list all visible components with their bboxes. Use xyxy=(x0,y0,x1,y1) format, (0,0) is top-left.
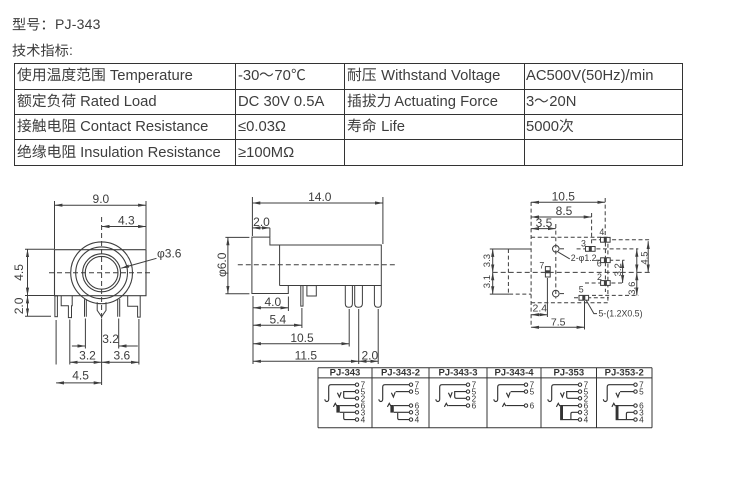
PJ-353 pin 6 terminal xyxy=(578,404,581,407)
dimension 3.6 bottom ext (dashed) xyxy=(592,294,639,296)
dimension 4.3 line xyxy=(102,226,146,228)
PJ-343 ring-spring contact (V) xyxy=(337,392,341,397)
PJ-353-2 wire to pin 4 xyxy=(619,419,634,421)
PJ-353 wire to pin 4 xyxy=(563,419,578,421)
PJ-353-2 shunt bar (filled) xyxy=(616,405,619,420)
PJ-353 pin 7 terminal xyxy=(578,383,581,386)
PJ-343-3 pin 6 terminal xyxy=(466,404,469,407)
dimension 3.6 line xyxy=(102,361,139,363)
PCB body left edge / ext line (dashed) xyxy=(530,202,532,328)
svg-text:14.0: 14.0 xyxy=(308,190,332,204)
variant table grid xyxy=(318,368,652,428)
svg-text:3.2: 3.2 xyxy=(79,348,96,362)
PJ-343-2 pin 7 terminal xyxy=(409,383,412,386)
PJ-353 shunt spring contact (^) xyxy=(556,403,560,407)
PJ-343-4 wire to pin 5 xyxy=(511,391,525,393)
svg-text:2-φ1.2: 2-φ1.2 xyxy=(571,253,597,263)
horizontal centerline of J1 xyxy=(49,272,152,274)
svg-text:4: 4 xyxy=(415,416,420,425)
PJ-343-4 wire to pin 6 xyxy=(506,405,524,407)
PJ-343-4 shunt spring contact (^) xyxy=(502,403,506,407)
pin lead A (flat) xyxy=(301,286,303,307)
PJ-353-2 shunt spring contact (^) xyxy=(612,403,616,407)
PJ-343-2 ring-spring contact (V) xyxy=(391,392,395,397)
vertical centerline of J1 xyxy=(101,217,103,320)
svg-text:6: 6 xyxy=(472,402,477,411)
dimension 9.0 extension lines xyxy=(55,201,147,249)
svg-text:5: 5 xyxy=(639,388,644,397)
svg-text:2.0: 2.0 xyxy=(361,348,378,362)
PJ-353-2 pin 6 terminal xyxy=(634,404,637,407)
label 5-(1.2X0.5) leader xyxy=(586,301,597,314)
dimension 11.5 line xyxy=(253,360,359,362)
pin P3 xyxy=(85,299,87,317)
pad 3 row (dashed) xyxy=(577,248,639,250)
svg-text:3.2: 3.2 xyxy=(613,263,624,276)
svg-text:4.3: 4.3 xyxy=(118,214,135,228)
svg-text:3.1: 3.1 xyxy=(482,275,493,288)
svg-text:PJ-353: PJ-353 xyxy=(553,367,584,378)
PJ-343 wire pin5-bracket-pin2 xyxy=(344,392,356,399)
dimension 4.5 line xyxy=(27,249,29,295)
dimension phi6.0 extension lines xyxy=(225,237,249,293)
pin lead D (round) xyxy=(355,286,363,308)
svg-text:φ3.6: φ3.6 xyxy=(157,247,182,261)
dimension 3.2 lower line xyxy=(70,361,102,363)
PJ-343 tip contact (J) and wire to pin 7 xyxy=(325,385,355,402)
dimension 3.6 upper segment xyxy=(636,249,638,273)
flange bottom ext line (solid) xyxy=(490,293,509,295)
svg-text:10.5: 10.5 xyxy=(552,189,576,203)
svg-text:2.0: 2.0 xyxy=(253,215,270,229)
pin P1 (left) xyxy=(55,296,58,317)
PJ-343-3 ring-spring contact (V) xyxy=(448,392,452,397)
PJ-343-2 pin 6 terminal xyxy=(409,404,412,407)
svg-text:9.0: 9.0 xyxy=(93,192,110,206)
svg-text:5: 5 xyxy=(415,388,420,397)
PJ-343 isolation block (filled) xyxy=(336,405,339,413)
pad7 ext line xyxy=(546,278,548,317)
dimension 2.0 extension line xyxy=(25,315,51,317)
dimension 3.2 upper arrows xyxy=(72,345,86,347)
PJ-343-3 wire pin5-bracket-pin2 xyxy=(455,392,467,399)
svg-text:PJ-343-4: PJ-343-4 xyxy=(494,367,534,378)
PJ-343-4 pin 6 terminal xyxy=(524,404,527,407)
PJ-343-2 wire to pin 6 xyxy=(394,405,409,407)
dimension 10.5 line xyxy=(531,201,605,203)
svg-text:3.5: 3.5 xyxy=(536,216,553,230)
ext line 10.5 (dashed) xyxy=(604,198,606,237)
pad5 ext line xyxy=(584,301,586,330)
pad 2 xyxy=(601,281,611,286)
dimension 2.0 right ext xyxy=(377,309,379,364)
svg-text:7.5: 7.5 xyxy=(551,316,566,328)
dimension 3.3 line xyxy=(492,249,494,272)
pin lead C (round) xyxy=(345,286,352,308)
dimension 2.0 line xyxy=(27,296,29,317)
svg-text:4.5: 4.5 xyxy=(72,369,89,383)
dimension 4.5 bottom line xyxy=(56,382,102,384)
pad 5 xyxy=(579,295,589,300)
dimension 3.5 line xyxy=(531,228,556,230)
svg-text:5: 5 xyxy=(579,284,584,294)
PJ-343 pin 6 terminal xyxy=(355,404,358,407)
pad 7 xyxy=(545,267,550,277)
dimension 2.0 top ext xyxy=(269,228,271,237)
PJ-353-2 wire pin3 hook xyxy=(626,412,633,419)
pin P6 tab and lead xyxy=(128,296,141,317)
hole H1 (1.2mm) xyxy=(553,246,560,253)
svg-text:2.4: 2.4 xyxy=(532,303,547,315)
label phi3.6 leader xyxy=(121,258,156,268)
pin extension lines xyxy=(56,319,139,386)
dimension 3.2 line xyxy=(622,260,624,283)
PJ-343 pin 5 terminal xyxy=(355,390,358,393)
PJ-353-2 pin 7 terminal xyxy=(634,383,637,386)
svg-text:6: 6 xyxy=(597,259,602,269)
svg-text:φ6.0: φ6.0 xyxy=(215,252,229,277)
PJ-353 pin 4 terminal xyxy=(578,418,581,421)
PJ-343-4 ring-spring contact (V) xyxy=(506,392,510,397)
label 2-phi1.2 leader xyxy=(558,252,570,259)
pin P2 tab and lead xyxy=(61,296,72,318)
svg-text:3.3: 3.3 xyxy=(482,254,493,267)
svg-text:PJ-343-2: PJ-343-2 xyxy=(381,367,420,378)
dimension 9.0 line xyxy=(55,204,147,206)
pads 6-2 axis (dashed) xyxy=(604,243,606,293)
svg-text:4.5: 4.5 xyxy=(12,264,26,281)
mount tab B xyxy=(307,286,316,296)
pad 6 row (dashed) xyxy=(596,259,625,261)
jack J1 bushing outer circle xyxy=(71,242,133,304)
PJ-343-2 wire bracket pin3-pin4 xyxy=(398,413,410,420)
svg-text:5: 5 xyxy=(530,388,535,397)
dimension 2.0 right line xyxy=(359,360,379,362)
jack J1 bore circle (3.6mm) xyxy=(85,256,118,289)
pad 3 xyxy=(586,247,596,252)
PJ-343 pin 3 terminal xyxy=(355,411,358,414)
dimension 3.6 line xyxy=(636,272,638,295)
side-view centerline xyxy=(238,264,395,266)
pad 4 xyxy=(601,237,611,242)
PJ-343 pin 7 terminal xyxy=(355,383,358,386)
pin lead E (round) xyxy=(374,286,381,308)
svg-text:3: 3 xyxy=(581,238,586,248)
PJ-353 pin 3 terminal xyxy=(578,411,581,414)
PJ-343-2 pin 3 terminal xyxy=(409,411,412,414)
PJ-343-3 pin 5 terminal xyxy=(466,390,469,393)
PJ-353 ring-spring contact (V) xyxy=(560,392,564,397)
dimension 10.5 line xyxy=(253,343,349,345)
PJ-343-2 wire to pin 5 xyxy=(396,391,410,393)
svg-text:5.4: 5.4 xyxy=(270,312,287,326)
dimension 4.0 line xyxy=(253,307,288,309)
dimension 5.4 line xyxy=(253,324,302,326)
PJ-343 shunt spring contact (^) xyxy=(333,403,337,407)
svg-text:4.0: 4.0 xyxy=(264,295,281,309)
PJ-353-2 tip contact (J) and wire to pin 7 xyxy=(603,385,633,402)
center axis (dashed) xyxy=(493,271,651,273)
PJ-353 wire pin3 hook xyxy=(571,412,578,419)
PJ-353 wire to pin 6 xyxy=(563,405,578,407)
PJ-353-2 pin 5 terminal xyxy=(634,390,637,393)
PJ-343-4 pin 5 terminal xyxy=(524,390,527,393)
svg-text:3.2: 3.2 xyxy=(102,332,119,346)
PJ-343 wire to pin 3 xyxy=(340,411,355,413)
dimension 5.4 ext xyxy=(301,308,303,328)
PCB body outline (dashed) xyxy=(531,237,608,303)
center pin P4 (shield) xyxy=(97,302,106,317)
dimension 4.0 ext xyxy=(287,297,289,312)
PJ-343-2 tip contact (J) and wire to pin 7 xyxy=(379,385,409,402)
pad 6 xyxy=(601,258,611,263)
PJ-343 pin 2 terminal xyxy=(355,397,358,400)
PJ-343-2 wire to pin 3 xyxy=(394,411,409,413)
PJ-343 wire bracket pin3-pin4 xyxy=(344,413,356,420)
svg-text:7: 7 xyxy=(539,261,544,271)
svg-text:4: 4 xyxy=(361,416,366,425)
svg-text:11.5: 11.5 xyxy=(295,348,318,362)
PJ-343-3 wire to pin 6 xyxy=(448,405,466,407)
svg-text:PJ-353-2: PJ-353-2 xyxy=(605,367,644,378)
PJ-343-3 tip contact (J) and wire to pin 7 xyxy=(436,385,466,402)
PJ-353-2 wire to pin 6 xyxy=(619,405,634,407)
PJ-343-2 pin 4 terminal xyxy=(409,418,412,421)
side-view bottom edge xyxy=(280,285,289,287)
left common extension line xyxy=(252,296,254,364)
dimension 14.0 line xyxy=(252,202,383,204)
hole H2 tick xyxy=(560,293,564,295)
svg-text:10.5: 10.5 xyxy=(290,331,314,345)
dimension 4.5 line xyxy=(647,241,649,272)
jack J1 front-view body outline xyxy=(55,250,147,296)
svg-text:4.5: 4.5 xyxy=(639,251,650,264)
PJ-343-2 shunt spring contact (^) xyxy=(387,403,391,407)
PJ-353 pin 2 terminal xyxy=(578,397,581,400)
dimension 8.5 line xyxy=(531,216,592,218)
jack J1 side-view outline xyxy=(252,237,381,293)
flange top ext line (solid) xyxy=(490,248,531,250)
PJ-353 shunt bar (filled) xyxy=(560,405,563,420)
PJ-343-4 tip contact (J) and wire to pin 7 xyxy=(494,385,524,402)
svg-text:4: 4 xyxy=(639,416,644,425)
PJ-353-2 wire to pin 5 xyxy=(620,391,634,393)
PJ-343-2 isolation block (filled) xyxy=(390,405,393,413)
PJ-353 pin 5 terminal xyxy=(578,390,581,393)
svg-text:PJ-343-3: PJ-343-3 xyxy=(438,367,477,378)
dimension 14.0 extension lines xyxy=(252,197,383,244)
svg-text:3.6: 3.6 xyxy=(627,282,638,295)
hole H2 (1.2mm) xyxy=(553,290,560,297)
svg-text:5-(1.2X0.5): 5-(1.2X0.5) xyxy=(599,308,643,318)
jack J1 bushing circle 3 xyxy=(83,254,121,292)
PJ-353 wire pin5-bracket-pin2 xyxy=(567,392,579,399)
svg-text:2: 2 xyxy=(597,272,602,282)
PJ-343-3 pin 2 terminal xyxy=(466,397,469,400)
jack J1 bushing circle 2 xyxy=(76,247,128,299)
PJ-343 pin 4 terminal xyxy=(355,418,358,421)
dimension 4.5 extension lines xyxy=(25,249,54,295)
pin P5 xyxy=(118,299,120,317)
dimension 11.5 ext xyxy=(358,309,360,364)
svg-text:2.0: 2.0 xyxy=(12,297,26,314)
dimension 10.5 ext xyxy=(348,309,350,347)
svg-text:PJ-343: PJ-343 xyxy=(330,367,361,378)
pad 4 row (dashed) xyxy=(592,239,650,241)
dimension 3.1 line xyxy=(492,272,494,294)
svg-text:3.6: 3.6 xyxy=(114,348,131,362)
svg-text:6: 6 xyxy=(530,402,535,411)
svg-text:4: 4 xyxy=(599,227,604,237)
dimension 2.0 top line xyxy=(252,227,270,229)
dimension 7.5 line xyxy=(531,326,584,328)
PJ-343-2 pin 5 terminal xyxy=(409,390,412,393)
pad 5 row (dashed) xyxy=(574,297,609,299)
ext line 8.5 (dashed) xyxy=(591,213,593,246)
PJ-343-3 shunt spring contact (^) xyxy=(444,403,448,407)
PJ-343 wire to pin 6 xyxy=(340,405,355,407)
hole H1 tick xyxy=(560,248,564,250)
svg-text:8.5: 8.5 xyxy=(556,204,573,218)
dimension phi6.0 line xyxy=(227,237,229,293)
hole axis vertical (dashed) xyxy=(555,224,557,299)
PJ-353 tip contact (J) and wire to pin 7 xyxy=(548,385,578,402)
PJ-353-2 pin 3 terminal xyxy=(634,411,637,414)
PJ-343-4 pin 7 terminal xyxy=(524,383,527,386)
PCB flange outline (dashed) xyxy=(508,249,531,294)
PJ-353-2 ring-spring contact (V) xyxy=(616,392,620,397)
svg-text:4: 4 xyxy=(584,416,589,425)
PJ-353-2 pin 4 terminal xyxy=(634,418,637,421)
dimension 2.4 line xyxy=(531,314,547,316)
pad 2 row (dashed) xyxy=(585,282,625,284)
PJ-343-3 pin 7 terminal xyxy=(466,383,469,386)
